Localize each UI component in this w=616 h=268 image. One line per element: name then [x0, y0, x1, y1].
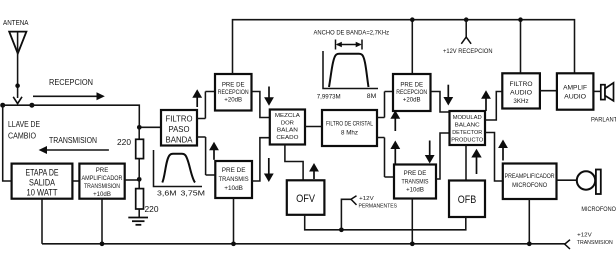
box PRE DE TRANSMIS +10dB (2) [394, 165, 436, 199]
svg-text:220: 220 [117, 138, 132, 147]
wire: +12V TRANSMISION rail [42, 240, 570, 249]
arrow down A2 [264, 87, 274, 106]
wire FILTRO AUDIO to AMPLIF AUDIO [540, 90, 557, 92]
box PRE AMPLIFICADOR TRANSMISION +10dB [79, 164, 124, 199]
svg-text:PASO: PASO [169, 124, 190, 134]
svg-text:OFB: OFB [458, 194, 477, 206]
box AMPLIF AUDIO [557, 73, 594, 109]
junction dot at resistor top [137, 125, 142, 130]
label RECEPCION + arrow [33, 77, 105, 101]
wire MODULAD bottom to OFB [465, 145, 467, 181]
antenna ANT [9, 32, 26, 104]
svg-text:+12V: +12V [359, 196, 374, 202]
svg-text:+10dB: +10dB [224, 185, 243, 192]
wire MEZCLADOR bottom to OFV [285, 145, 303, 181]
wire MEZCLADOR to FILTRO DE CRISTAL [305, 126, 322, 128]
arrow up A5 (above OFV) [309, 163, 319, 179]
wire ETAPA to PRE AMPLIFICADOR [72, 180, 79, 182]
svg-text:8M: 8M [367, 93, 377, 100]
svg-text:10 WATT: 10 WATT [27, 187, 58, 197]
svg-text:BANDA: BANDA [166, 135, 193, 145]
arrow up A10 [481, 90, 491, 111]
svg-text:PRE: PRE [96, 167, 109, 174]
svg-text:AUDIO: AUDIO [564, 94, 586, 101]
svg-text:ANCHO DE BANDA=2,7KHz: ANCHO DE BANDA=2,7KHz [314, 29, 390, 36]
svg-text:MICROFONO: MICROFONO [512, 182, 547, 189]
graph: band-pass response 3,6M-3,75M [154, 150, 203, 187]
box PRE DE RECEPCION +20dB (2) [393, 74, 431, 111]
box OFV [287, 180, 325, 215]
microphone MICROFONO [577, 170, 601, 195]
wire PREAMP to microphone [557, 179, 577, 181]
svg-text:PRE DE: PRE DE [404, 170, 427, 177]
svg-text:+12V RECEPCION: +12V RECEPCION [443, 48, 493, 55]
svg-text:PRODUCTO: PRODUCTO [451, 138, 483, 144]
svg-text:3,6M: 3,6M [157, 189, 177, 198]
svg-text:MICROFONO: MICROFONO [581, 206, 616, 213]
wire AMPLIF AUDIO to speaker [593, 90, 600, 92]
arrow down A9 [425, 141, 435, 164]
svg-text:AMPLIFICADOR: AMPLIFICADOR [82, 175, 124, 182]
svg-text:+20dB: +20dB [403, 97, 421, 104]
svg-text:TRANSMISION: TRANSMISION [577, 240, 613, 246]
arrow down A7 [443, 85, 453, 106]
svg-text:TRANSMIS: TRANSMIS [402, 179, 429, 186]
svg-text:FILTRO: FILTRO [166, 114, 193, 124]
svg-text:CAMBIO: CAMBIO [8, 132, 36, 141]
wire: switch down to ETAPA DE SALIDA [3, 105, 12, 181]
svg-text:ETAPA DE: ETAPA DE [26, 167, 59, 177]
svg-text:CEADO: CEADO [276, 135, 298, 141]
arrow up A11 [471, 149, 481, 174]
resistor R2 220 [136, 159, 144, 209]
svg-text:DETECTOR: DETECTOR [452, 130, 482, 136]
box PRE DE RECEPCION +20dB (1) [215, 74, 252, 111]
box PREAMPLIFICADOR MICROFONO [503, 164, 557, 200]
svg-text:BALAN: BALAN [277, 128, 298, 134]
svg-text:3KHz: 3KHz [513, 98, 528, 105]
box MODULAD BALANC DETECTOR PRODUCTO [450, 111, 486, 145]
svg-text:PRE DE: PRE DE [222, 167, 246, 174]
svg-text:3,75M: 3,75M [181, 189, 206, 198]
wire: +12V PERMANENTES rail (OFV-OFB) [305, 196, 466, 232]
box ETAPA DE SALIDA 10 WATT [12, 164, 73, 199]
svg-text:8 Mhz: 8 Mhz [341, 130, 358, 137]
svg-text:PRE DE: PRE DE [222, 82, 245, 89]
arrow up A1 (RX into PRE DE RECEPCION 1) [192, 89, 202, 107]
wire MODULAD to FILTRO AUDIO [485, 92, 502, 121]
svg-text:TRANSMIS: TRANSMIS [219, 176, 249, 183]
wire MODULAD to PREAMPLIFICADOR MICROFONO [485, 133, 503, 182]
wire: PRE REC 2 to MODULAD [431, 92, 450, 113]
svg-text:ANTENA: ANTENA [3, 18, 29, 27]
wire PRE AMP out to resistor node [125, 179, 140, 181]
svg-text:7,9973M: 7,9973M [317, 94, 341, 101]
box OFB [449, 181, 485, 218]
svg-text:+20dB: +20dB [224, 97, 242, 104]
arrow up A8 [390, 141, 400, 165]
svg-text:MEZCLA: MEZCLA [275, 113, 300, 119]
bandwidth double arrow [336, 40, 363, 50]
wire: MEZCLADOR to PRE TRANSMIS 1 [252, 138, 270, 181]
wire: PRE REC 1 out to MEZCLADOR [252, 92, 270, 118]
box MEZCLADOR BALANCEADO [270, 110, 305, 145]
svg-text:+12V: +12V [577, 233, 592, 239]
wire: RX rail from switch to filter [3, 105, 161, 127]
wire: FILTRO PASO BANDA to PRE pair 1 (bus) [197, 92, 215, 176]
wire: bottom verticals to +12V TRANSMISION rail [42, 198, 529, 244]
svg-text:OFV: OFV [296, 193, 316, 205]
svg-text:TRANSMISION: TRANSMISION [49, 135, 97, 145]
resistor R1 220 [136, 127, 144, 158]
svg-text:PARLANTE: PARLANTE [591, 117, 616, 124]
speaker PARLANTE [601, 83, 614, 101]
svg-text:RECEPCION: RECEPCION [218, 89, 249, 96]
ground [128, 209, 148, 225]
svg-text:FILTRO DE CRISTAL: FILTRO DE CRISTAL [326, 121, 373, 128]
+12V RECEPCION stub connector [461, 20, 471, 44]
svg-text:MODULAD: MODULAD [453, 115, 482, 121]
box PRE DE TRANSMIS +10dB (1) [215, 161, 252, 198]
top rail +12V RECEPCION [233, 17, 575, 74]
node: antenna/switch junction (llave de cambio) [0, 103, 34, 108]
svg-text:PRE DE: PRE DE [400, 82, 423, 89]
svg-text:TRANSMISION: TRANSMISION [84, 183, 120, 190]
wire: FILTRO DE CRISTAL to PRE pair 2 (bus) [377, 92, 394, 178]
arrow up A6 [390, 110, 400, 131]
svg-text:220: 220 [145, 205, 160, 214]
svg-text:PERMANENTES: PERMANENTES [359, 204, 398, 210]
svg-text:RECEPCION: RECEPCION [49, 77, 93, 87]
svg-text:+10dB: +10dB [406, 187, 424, 194]
arrow down A4 [264, 158, 274, 182]
box FILTRO PASO BANDA [161, 110, 197, 146]
box FILTRO DE CRISTAL 8 Mhz [322, 110, 377, 146]
svg-text:PREAMPLIFICADOR: PREAMPLIFICADOR [505, 173, 556, 180]
graph: crystal filter response (ancho de banda) [323, 51, 378, 89]
svg-text:AUDIO: AUDIO [510, 90, 532, 97]
svg-text:AMPLIF: AMPLIF [563, 85, 587, 92]
label TRANSMISION + arrow [39, 135, 109, 154]
arrow up A12 [498, 140, 508, 161]
svg-text:+10dB: +10dB [93, 191, 111, 198]
svg-text:SALIDA: SALIDA [29, 177, 56, 187]
svg-text:FILTRO: FILTRO [510, 81, 533, 88]
wire: MODULAD to PRE TRANSMIS 2 [436, 133, 450, 179]
box FILTRO AUDIO 3KHz [502, 73, 540, 108]
svg-text:LLAVE DE: LLAVE DE [8, 120, 40, 129]
svg-text:BALANC: BALANC [455, 123, 481, 129]
svg-text:RECEPCION: RECEPCION [396, 89, 427, 96]
arrow up A3 (TX out of PRE DE TRANSMIS 1) [209, 142, 219, 160]
svg-text:DOR: DOR [281, 121, 294, 127]
